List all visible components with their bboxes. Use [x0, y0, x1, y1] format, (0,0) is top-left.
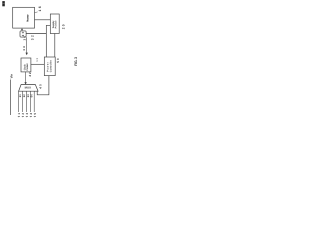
wire arrow U1 to X1 — [21, 28, 23, 29]
node 62 (label at input 2) — [23, 94, 26, 98]
node 61 (label at input 1) — [19, 94, 22, 98]
wire left signal line — [10, 80, 12, 116]
block U2 label — [52, 20, 58, 28]
svg-text:20: 20 — [62, 24, 66, 29]
svg-text:30: 30 — [21, 31, 25, 36]
node 36 (lower label left of bus) — [22, 46, 26, 51]
svg-text:Vin: Vin — [10, 74, 14, 79]
svg-text:40: 40 — [39, 84, 43, 89]
wire bus down to U4 with arrowhead — [26, 37, 28, 53]
node 20 (label right of U2) — [62, 24, 66, 29]
node header text top-left — [2, 1, 5, 6]
svg-text:f5: f5 — [33, 113, 37, 118]
wire leader to U1 — [35, 11, 38, 14]
node input label 2 — [21, 113, 25, 118]
component X1 label — [21, 31, 25, 36]
svg-text:Controller: Controller — [49, 60, 52, 72]
wire mux input 2 — [22, 91, 24, 112]
block U1 label — [27, 14, 30, 22]
wire X1 to U3 (horizontal) — [26, 33, 46, 35]
node FIG. 3 label — [74, 57, 78, 66]
svg-text:34: 34 — [22, 36, 26, 41]
wire U4 to U3 — [31, 63, 44, 65]
block U3 (power controller box mid-right) — [44, 57, 55, 76]
wire U2 left pin down to U3 — [46, 25, 50, 57]
component X1 (small oscillator box under U1) — [20, 31, 26, 37]
node input label 5 — [33, 113, 37, 118]
wire U4 down to MUX with arrowhead — [25, 72, 27, 83]
node 42 (label right of U4 bottom stub) — [28, 72, 32, 77]
multiplexer M1 (trapezoid) — [19, 85, 38, 92]
wire mux input 1 — [18, 91, 20, 112]
block U4 label — [23, 63, 29, 70]
svg-text:50: 50 — [56, 58, 60, 63]
wire mux input 3 — [26, 91, 28, 112]
node 13 (faint label above wire) — [36, 58, 39, 62]
node 34 (upper label left of bus) — [22, 36, 26, 41]
node Vin label (left signal) — [10, 74, 14, 79]
block U2 (power supply box top-right) — [50, 14, 59, 34]
node 40 (label right of MUX) — [39, 84, 43, 89]
block U3 label — [46, 60, 52, 72]
node 16 (reference numeral near U1 top-right) — [38, 6, 42, 11]
node input label 3 — [25, 113, 29, 118]
node input label 1 — [17, 113, 21, 118]
wire U3 bottom to MUX select — [37, 76, 49, 95]
svg-text:16: 16 — [38, 6, 42, 11]
svg-text:FIG. 3: FIG. 3 — [74, 57, 78, 66]
svg-text:42: 42 — [28, 72, 32, 77]
svg-text:Power: Power — [54, 20, 57, 28]
wire U1 to U2 — [35, 19, 51, 21]
svg-text:13: 13 — [36, 58, 39, 62]
wire mux input 4 — [29, 91, 31, 112]
block U1 (main processor box) — [13, 7, 35, 28]
svg-text:Processor: Processor — [27, 14, 30, 22]
wire mux input 5 — [33, 91, 35, 112]
node input label 4 — [29, 113, 33, 118]
block U4 (clock generator box mid-left) — [21, 58, 31, 72]
node 32 (label right of X1) — [30, 35, 34, 40]
node 64 (label at input 4) — [31, 94, 34, 98]
svg-text:36: 36 — [22, 46, 26, 51]
node 63 (label at input 3) — [27, 94, 30, 98]
svg-text:MUX: MUX — [25, 86, 32, 90]
svg-text:Control: Control — [26, 63, 29, 70]
multiplexer M1 label — [25, 86, 32, 90]
node 50 (label right of U3) — [56, 58, 60, 63]
svg-text:32: 32 — [30, 35, 34, 40]
wire U2 bottom pin down to U3 — [54, 34, 56, 58]
